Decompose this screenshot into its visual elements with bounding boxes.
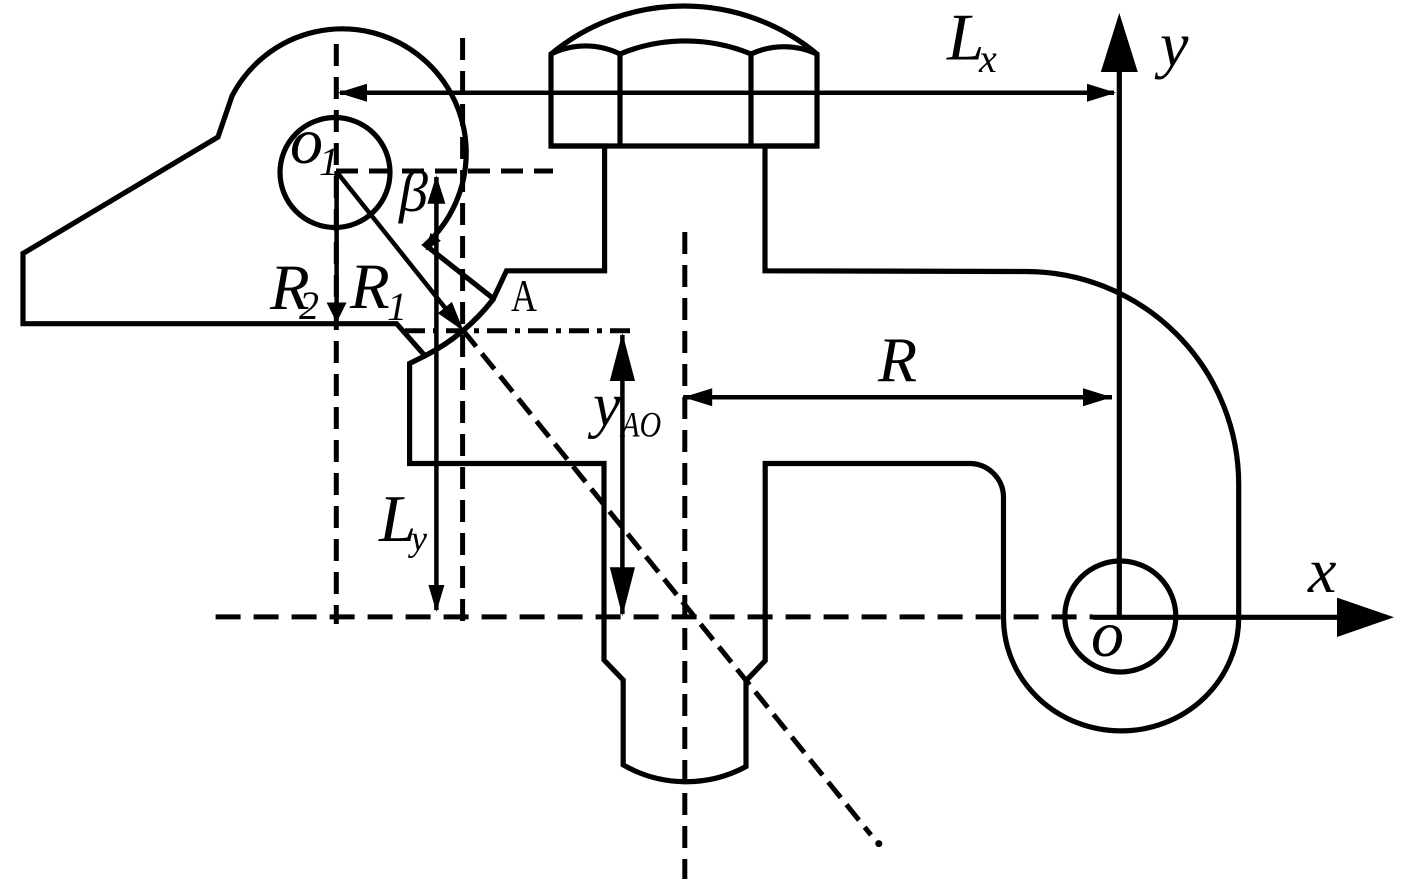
bolt head bottom edge (551, 143, 817, 148)
svg-text:1: 1 (387, 284, 407, 329)
svg-text:1: 1 (319, 139, 339, 184)
beta angle arc arrowhead (426, 233, 441, 251)
pivot circle O1 (280, 118, 390, 228)
bolt head facet line left (617, 54, 622, 146)
yAO dimension line (620, 335, 625, 614)
svg-text:x: x (1307, 535, 1336, 606)
plate outline (T-shaped part with bolt head and hook around O) (410, 6, 1239, 782)
svg-text:2: 2 (299, 283, 319, 328)
svg-text:R: R (877, 324, 917, 395)
dashed extension of x-axis to the left (216, 614, 1093, 619)
bolt head crown arc middle (620, 41, 751, 54)
svg-text:y: y (408, 519, 427, 559)
svg-text:R: R (349, 251, 390, 323)
svg-text:o: o (1091, 598, 1124, 671)
x-axis (1093, 615, 1340, 620)
svg-text:A: A (511, 270, 537, 321)
dot at end of dashed diagonal (875, 840, 882, 847)
horizontal dash-dot line through A (405, 328, 637, 333)
svg-text:y: y (1154, 9, 1189, 80)
vertical dashed centerline of stem (682, 232, 687, 879)
origin circle at O (1065, 561, 1176, 672)
R dimension line (683, 395, 1112, 400)
pawl outline (part with pivot O1) (23, 29, 493, 356)
Ly dimension line (434, 177, 439, 610)
svg-text:x: x (978, 36, 997, 81)
dashed diagonal line through O1 and A extended (464, 331, 871, 835)
R1 dimension line (O1 to A) (336, 171, 460, 327)
Lx dimension line (340, 91, 1114, 96)
svg-text:β: β (398, 159, 428, 224)
bolt head crown arc right (751, 47, 817, 54)
horizontal dashed line through O1 (336, 169, 553, 174)
svg-text:y: y (587, 372, 621, 440)
y-axis (1117, 70, 1122, 617)
R2 dimension line (O1 down to pawl bottom) (334, 171, 339, 318)
svg-text:AO: AO (620, 405, 662, 445)
bolt head facet line right (748, 54, 753, 146)
vertical dashed centerline through O1 (334, 44, 339, 624)
bolt head crown arc left (551, 46, 620, 54)
vertical dashed line through A (460, 38, 465, 630)
